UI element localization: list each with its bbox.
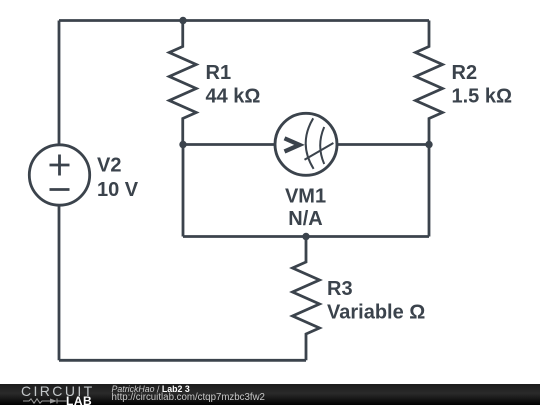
node junction R1 top bbox=[179, 17, 186, 24]
label VM1 N/A bbox=[285, 185, 326, 230]
wire lower rail of measurement loop bbox=[183, 235, 429, 238]
wire top rail bbox=[59, 19, 429, 22]
svg-text:VM1: VM1 bbox=[285, 185, 326, 207]
wire middle-left from R1 bottom node to VM1 bbox=[183, 143, 275, 146]
voltage source V2 bbox=[29, 145, 89, 205]
wire right vertical of measurement loop bbox=[428, 145, 431, 237]
svg-text:V2: V2 bbox=[97, 154, 121, 176]
voltmeter VM1 bbox=[275, 113, 337, 175]
label R3 Variable Ω bbox=[327, 278, 425, 323]
node junction R2 bottom / VM1 right bbox=[425, 141, 432, 148]
resistor R3 bbox=[293, 237, 320, 361]
label R1 44 kΩ bbox=[206, 62, 261, 108]
resistor R2 bbox=[416, 21, 443, 145]
node junction R1 bottom / VM1 left bbox=[179, 141, 186, 148]
label V2 10 V bbox=[97, 154, 139, 200]
svg-text:44 kΩ: 44 kΩ bbox=[206, 86, 261, 108]
footer bar bbox=[0, 384, 540, 405]
svg-text:R2: R2 bbox=[452, 62, 478, 84]
CircuitLab logo schematic squiggle bbox=[21, 397, 67, 405]
resistor R1 bbox=[169, 21, 196, 145]
wire left vertical of measurement loop bbox=[182, 145, 185, 237]
wire V2 bottom vertical bbox=[58, 205, 61, 360]
svg-text:1.5 kΩ: 1.5 kΩ bbox=[452, 86, 513, 108]
wire middle-right from VM1 to R2 bottom node bbox=[337, 143, 429, 146]
CircuitLab logo wordmark bbox=[21, 383, 95, 399]
svg-text:Variable Ω: Variable Ω bbox=[327, 301, 425, 323]
svg-text:N/A: N/A bbox=[288, 208, 322, 230]
wire top-left vertical from V2 to top rail bbox=[58, 21, 61, 146]
footer title text bbox=[112, 384, 190, 394]
svg-text:10 V: 10 V bbox=[97, 179, 139, 201]
label R2 1.5 kΩ bbox=[452, 62, 513, 108]
wire bottom rail bbox=[59, 359, 306, 362]
svg-text:R3: R3 bbox=[327, 278, 353, 300]
CircuitLab logo LAB bbox=[66, 394, 92, 408]
svg-text:R1: R1 bbox=[206, 62, 232, 84]
node junction R3 top bbox=[302, 233, 309, 240]
footer url text bbox=[112, 392, 265, 403]
